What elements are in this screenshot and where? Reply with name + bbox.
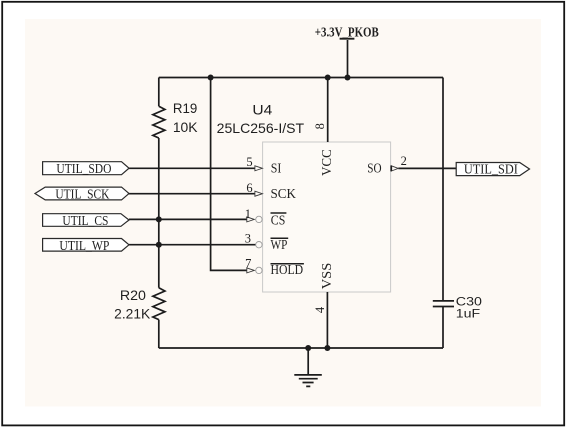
svg-text:5: 5	[246, 155, 252, 169]
svg-text:+3.3V_PKOB: +3.3V_PKOB	[315, 26, 379, 41]
svg-text:UTIL_SDO: UTIL_SDO	[56, 161, 111, 176]
svg-text:2.21K: 2.21K	[114, 306, 150, 321]
svg-text:UTIL_SCK: UTIL_SCK	[55, 186, 109, 201]
svg-text:VSS: VSS	[319, 263, 334, 290]
svg-text:4: 4	[313, 306, 327, 313]
svg-text:WP: WP	[271, 237, 288, 252]
svg-text:6: 6	[246, 181, 252, 195]
svg-text:1uF: 1uF	[456, 307, 480, 321]
svg-text:U4: U4	[252, 102, 272, 118]
svg-text:SO: SO	[367, 161, 382, 176]
svg-text:SI: SI	[271, 161, 282, 176]
svg-text:7: 7	[245, 257, 251, 271]
svg-text:VCC: VCC	[319, 149, 334, 176]
svg-text:1: 1	[245, 207, 251, 221]
svg-text:R19: R19	[173, 101, 197, 116]
svg-text:CS: CS	[271, 212, 286, 227]
svg-text:SCK: SCK	[271, 186, 297, 201]
svg-text:HOLD: HOLD	[271, 262, 304, 277]
svg-text:UTIL_SDI: UTIL_SDI	[464, 162, 518, 177]
svg-text:R20: R20	[120, 288, 146, 303]
svg-text:UTIL_CS: UTIL_CS	[62, 213, 108, 228]
svg-text:3: 3	[245, 231, 251, 245]
svg-text:25LC256-I/ST: 25LC256-I/ST	[217, 120, 305, 136]
svg-text:10K: 10K	[173, 120, 198, 135]
svg-text:UTIL_WP: UTIL_WP	[59, 238, 109, 253]
svg-text:2: 2	[401, 154, 407, 168]
svg-text:8: 8	[313, 123, 327, 129]
